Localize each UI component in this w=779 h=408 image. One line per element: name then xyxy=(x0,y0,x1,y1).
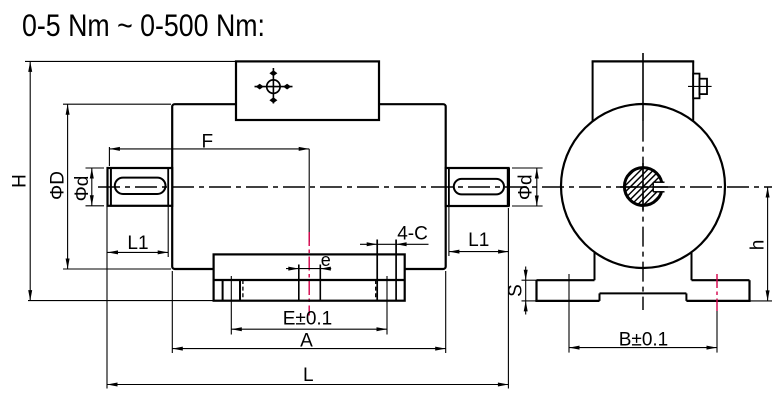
dimension F xyxy=(108,147,110,166)
connector centre line xyxy=(688,85,712,87)
red bolt-centre line (right view) xyxy=(716,274,718,311)
top junction box (right view) left side xyxy=(592,61,594,125)
svg-text:H: H xyxy=(10,174,31,188)
dimension 4-C (mount slot width) xyxy=(360,243,429,245)
mounting base plate fill xyxy=(214,254,405,300)
right view mounting feet outline xyxy=(594,252,596,280)
central groove edge right (e extension) xyxy=(319,265,321,301)
horizontal shaft centre line xyxy=(98,186,772,188)
dimension H (overall height) xyxy=(25,60,236,62)
horizontal centre line solid overlay at hatched circle xyxy=(620,186,668,188)
H bottom extension line xyxy=(28,300,214,302)
dimension L1 (left shaft length) xyxy=(167,206,169,257)
dimension S (foot thickness) xyxy=(522,279,537,281)
dimension Phid (right shaft diameter) xyxy=(512,167,543,169)
svg-text:S: S xyxy=(506,284,527,297)
mounting base outline xyxy=(214,254,405,300)
black extension line to base centre (for F) xyxy=(308,149,310,242)
connector nub xyxy=(700,79,708,94)
top junction box (right view) right side xyxy=(692,61,694,125)
dimension h (centre height) xyxy=(750,300,773,302)
dimension E +/-0.1 (slot centres) xyxy=(230,276,232,335)
left shaft collar line xyxy=(167,168,169,206)
svg-text:ΦD: ΦD xyxy=(48,171,69,200)
sensor front circle xyxy=(561,104,725,268)
svg-text:h: h xyxy=(747,240,768,251)
svg-text:F: F xyxy=(201,132,213,153)
crosshair target symbol on junction box xyxy=(255,86,293,88)
right shaft collar line xyxy=(448,168,450,206)
right keyway slot xyxy=(454,179,504,195)
svg-text:0-5 Nm ~ 0-500 Nm:: 0-5 Nm ~ 0-500 Nm: xyxy=(22,7,265,43)
svg-text:L1: L1 xyxy=(468,230,489,251)
dimension L1 (right shaft length) xyxy=(448,206,450,256)
vertical centre line (right view) xyxy=(642,53,644,122)
dimension A (body length) xyxy=(171,271,173,353)
left shaft end-cap line xyxy=(110,168,112,206)
top junction box (right view) top xyxy=(592,60,695,62)
top junction box (left view) xyxy=(236,61,379,120)
left keyway slot xyxy=(115,178,166,194)
svg-text:A: A xyxy=(300,330,313,351)
svg-text:Φd: Φd xyxy=(72,176,93,202)
mounting base mid line xyxy=(214,279,405,281)
dimension L (overall length) xyxy=(106,206,108,389)
right shaft xyxy=(446,168,509,206)
left slot hidden edge (dashed) xyxy=(242,280,244,301)
dimension e (groove offset) xyxy=(286,268,331,270)
svg-text:L1: L1 xyxy=(127,233,148,254)
left slot edge a xyxy=(222,280,224,301)
right slot edge b / 4-C extension xyxy=(395,240,397,301)
right slot hidden edge (dashed) xyxy=(375,280,377,301)
central groove edge left (e extension) xyxy=(298,265,300,301)
right slot edge a / 4-C extension xyxy=(376,240,378,301)
svg-text:4-C: 4-C xyxy=(397,224,428,245)
svg-text:L: L xyxy=(303,365,314,386)
svg-text:e: e xyxy=(321,250,331,270)
svg-text:B±0.1: B±0.1 xyxy=(619,329,669,350)
sensor body outline (left view) xyxy=(172,104,446,269)
right shaft end-cap line xyxy=(507,168,510,206)
dimension Phid (left shaft diameter) xyxy=(86,167,105,169)
svg-text:E±0.1: E±0.1 xyxy=(283,309,333,330)
left shaft xyxy=(108,168,173,206)
dimension PhiD (body diameter) xyxy=(63,103,171,105)
left slot edge b xyxy=(239,280,241,301)
red centre line of base (left view) xyxy=(308,232,310,316)
connector flange xyxy=(693,74,699,99)
dimension B +/-0.1 (foot hole centres) xyxy=(568,274,570,353)
